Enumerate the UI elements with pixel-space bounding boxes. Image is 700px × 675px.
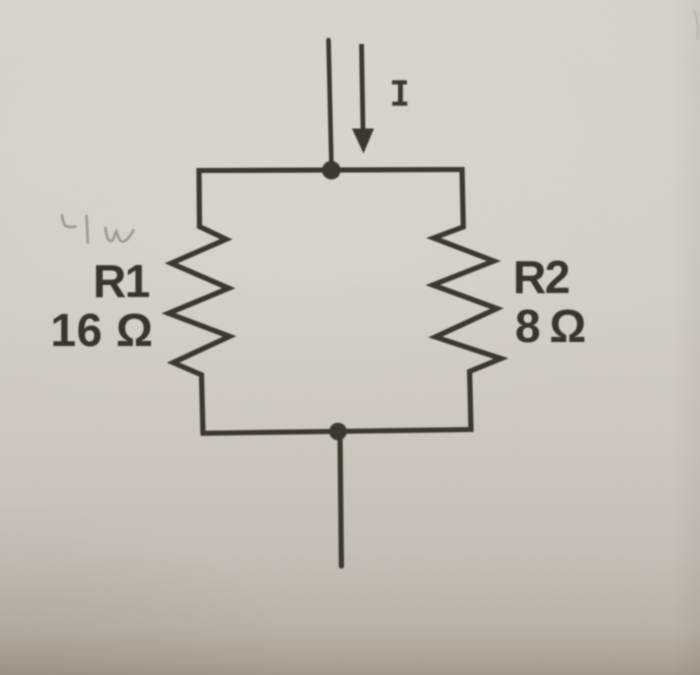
resistor R2 xyxy=(433,167,501,430)
svg-text:16 Ω: 16 Ω xyxy=(51,304,154,356)
wire: bottom lead xyxy=(340,433,341,566)
wire: top bus xyxy=(197,170,465,171)
svg-text:8 Ω: 8 Ω xyxy=(515,300,585,352)
label I xyxy=(392,80,407,105)
node: top junction xyxy=(322,161,341,180)
handwritten pencil mark "4w" xyxy=(62,216,134,243)
node: bottom junction xyxy=(329,423,347,441)
resistor R1 xyxy=(169,168,230,434)
wire: bottom bus xyxy=(201,430,474,434)
svg-text:R2: R2 xyxy=(513,251,569,303)
arrow: current direction I xyxy=(362,44,364,130)
wire: top feed xyxy=(329,40,332,168)
svg-text:R1: R1 xyxy=(93,255,150,307)
